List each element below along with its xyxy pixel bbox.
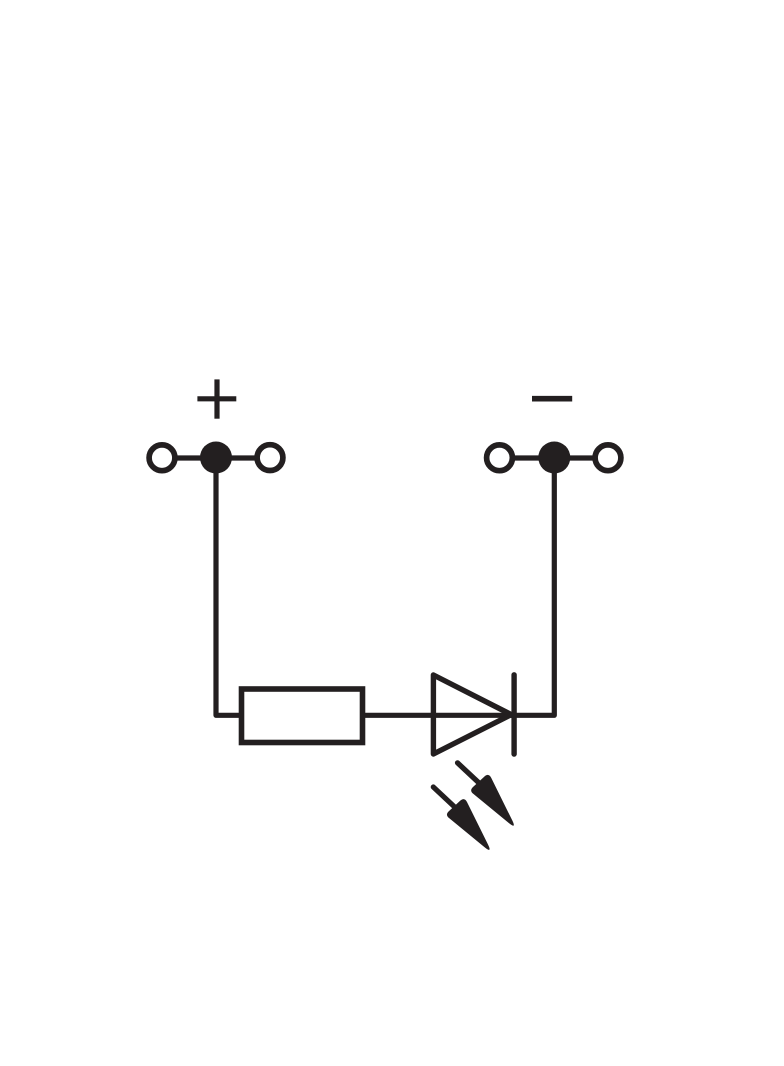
wire: resistor to LED — [365, 713, 514, 718]
light emission arrow 1 head — [471, 775, 514, 826]
light emission arrow 2 head — [447, 799, 490, 850]
wire: right drop from node to LED cathode — [511, 458, 554, 715]
terminal contact circle (right inner) — [487, 445, 513, 471]
node: minus junction dot — [538, 442, 570, 474]
plus polarity symbol — [197, 379, 236, 418]
light emission arrow 2 tail — [433, 787, 458, 811]
terminal contact circle (right outer) — [595, 445, 621, 471]
resistor R — [242, 689, 363, 743]
LED D1 cathode bar — [511, 675, 516, 754]
wire: left terminal bar — [162, 455, 270, 460]
terminal contact circle (left outer) — [149, 445, 175, 471]
light emission arrow 1 tail — [458, 763, 483, 787]
node: plus junction dot — [200, 442, 232, 474]
wire: left drop from node to resistor — [216, 458, 243, 715]
wire: right terminal bar — [500, 455, 609, 460]
LED D1 triangle (anode) — [433, 675, 511, 754]
terminal contact circle (left inner) — [257, 445, 283, 471]
minus polarity symbol — [532, 396, 572, 402]
